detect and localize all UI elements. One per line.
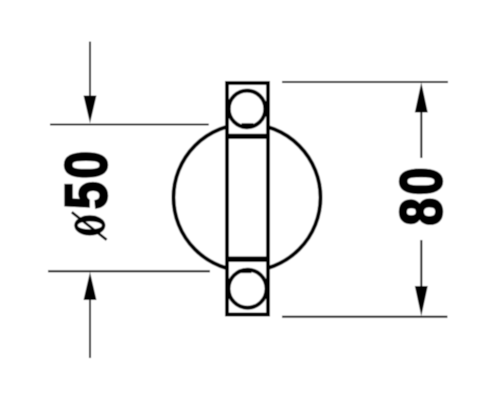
extension line top left <box>50 124 209 126</box>
plate circle ø50 <box>174 124 321 271</box>
dimension arrowhead bottom right <box>415 286 428 316</box>
svg-text:80: 80 <box>388 165 454 226</box>
bar rectangle <box>227 83 268 315</box>
dimension arrowhead top right <box>415 82 428 112</box>
dimension line lower right <box>420 240 422 288</box>
top hole circle <box>229 91 266 128</box>
extension line top right <box>282 81 448 83</box>
dimension arrow stem bottom left <box>89 299 91 358</box>
svg-text:50: 50 <box>53 148 119 209</box>
bottom solid bar <box>225 256 270 262</box>
dimension line upper right <box>420 110 422 158</box>
plate edge seen through bottom hole <box>241 271 252 273</box>
top solid bar <box>225 134 270 139</box>
extension line bottom right <box>282 316 448 318</box>
plate edge seen through top hole <box>242 123 254 125</box>
dimension arrowhead bottom left <box>84 272 97 300</box>
extension line bottom left <box>48 270 210 272</box>
bottom hole circle <box>229 270 267 308</box>
dimension arrow stem top left <box>89 42 91 100</box>
dimension arrowhead top left <box>84 96 97 124</box>
label diameter symbol ring <box>74 215 105 235</box>
label diameter symbol slash <box>72 212 107 240</box>
